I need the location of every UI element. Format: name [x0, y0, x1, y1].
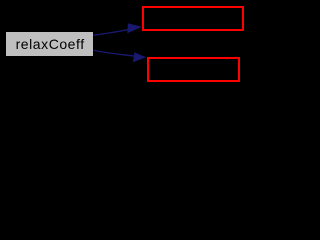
- node box2 (bottom red box): [147, 57, 240, 82]
- edge to box1 (wire): [94, 29, 133, 35]
- label relaxCoeff: [16, 37, 85, 51]
- node box1 (top red box): [142, 6, 244, 31]
- arrowhead edge1: [127, 23, 142, 33]
- arrowhead edge2: [133, 52, 146, 62]
- edge to box2 (wire): [94, 50, 135, 56]
- node relaxCoeff (grey filled box): [5, 31, 94, 57]
